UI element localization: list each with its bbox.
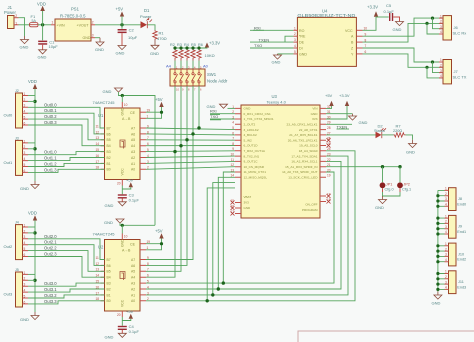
svg-text:Out1.0: Out1.0 bbox=[44, 150, 57, 155]
U4 pin 7 Z bbox=[356, 47, 362, 49]
wire U2 A1 long run to U3 pin23 bbox=[146, 156, 348, 295]
wire D2 to R7 bbox=[382, 134, 394, 136]
svg-text:A3: A3 bbox=[131, 150, 135, 154]
svg-text:A→B: A→B bbox=[122, 249, 131, 253]
junction rail R3 bbox=[179, 46, 182, 49]
svg-text:GND: GND bbox=[120, 107, 124, 115]
J11 pins 1-4 bbox=[445, 274, 449, 290]
svg-text:4_BCLK2: 4_BCLK2 bbox=[244, 133, 258, 137]
junction SW A3 bbox=[179, 144, 182, 147]
wire JP2 drop bbox=[399, 167, 401, 183]
wire net Out3.2 bbox=[28, 295, 105, 298]
wire U3 pin27 to LED D2 bbox=[326, 134, 376, 136]
svg-text:3: 3 bbox=[445, 280, 447, 284]
connector J7 SLC TX bbox=[443, 60, 452, 84]
junction SW A1 bbox=[191, 132, 194, 135]
svg-text:3: 3 bbox=[445, 225, 447, 229]
svg-text:DE: DE bbox=[299, 41, 305, 45]
svg-text:A2: A2 bbox=[131, 287, 135, 291]
U3 pin 17 GND no-connect bbox=[235, 213, 241, 215]
svg-text:9_OUT1C: 9_OUT1C bbox=[244, 160, 259, 164]
wire R7 to ground bbox=[406, 135, 413, 140]
wire U2 A3 long run to U3 pin20 bbox=[146, 172, 334, 283]
wire VDD bus J4 J5 bbox=[34, 221, 36, 313]
J8 pins 1-4 bbox=[445, 190, 449, 206]
wire net TXEN to U4 RE DE bbox=[250, 36, 293, 42]
wire SW1 bit A0 drop bbox=[198, 86, 200, 128]
wire U3 pin21 to jumpers and End bus bbox=[326, 166, 400, 168]
svg-text:PROGRAM: PROGRAM bbox=[302, 208, 318, 212]
wire U1 A1 to U3 pin11 bbox=[146, 161, 235, 163]
wire net TXEN at U3 pin29 bbox=[326, 123, 352, 125]
svg-text:End0: End0 bbox=[457, 202, 466, 206]
U4 pin 1 RO bbox=[293, 29, 297, 31]
svg-text:4: 4 bbox=[24, 110, 26, 114]
svg-text:6_OUT1D: 6_OUT1D bbox=[244, 144, 259, 148]
wire End bus bbox=[437, 190, 439, 291]
U4 pin 6 Y bbox=[356, 53, 362, 55]
J5 pins 1-6 bbox=[23, 274, 29, 304]
svg-text:U2: U2 bbox=[98, 245, 104, 250]
svg-text:A3: A3 bbox=[131, 282, 135, 286]
resistor R7 220 ohm bbox=[394, 133, 406, 137]
ground at C3 bbox=[118, 202, 126, 206]
svg-text:20_A6_TX5_LRCLK1: 20_A6_TX5_LRCLK1 bbox=[288, 138, 318, 142]
wire net Out1.2 bbox=[28, 163, 105, 166]
svg-text:GND: GND bbox=[150, 51, 159, 56]
svg-text:4: 4 bbox=[440, 74, 442, 78]
svg-text:C5: C5 bbox=[386, 3, 392, 8]
wire PS1 GND pin to ground bbox=[95, 37, 100, 39]
svg-text:5_IN2: 5_IN2 bbox=[244, 138, 253, 142]
svg-text:10: 10 bbox=[124, 103, 128, 107]
wire net Out2.2 bbox=[28, 251, 105, 272]
svg-text:2: 2 bbox=[445, 220, 447, 224]
svg-text:C2: C2 bbox=[129, 27, 135, 32]
connector J9 End1 bbox=[449, 215, 457, 238]
svg-text:B5: B5 bbox=[107, 270, 111, 274]
svg-text:17_A3_TX4_SDA1: 17_A3_TX4_SDA1 bbox=[291, 154, 317, 158]
svg-text:SLC Rx: SLC Rx bbox=[453, 31, 467, 36]
U3 pin PROGRAM no-connect bbox=[320, 201, 326, 203]
svg-text:10_CS_MQSR: 10_CS_MQSR bbox=[244, 165, 265, 169]
svg-text:1: 1 bbox=[440, 58, 442, 62]
svg-text:1: 1 bbox=[440, 14, 442, 18]
U3 left pin names bbox=[244, 107, 274, 180]
svg-text:4: 4 bbox=[294, 44, 296, 48]
svg-text:4: 4 bbox=[445, 203, 447, 207]
svg-text:Teensy 4.0: Teensy 4.0 bbox=[267, 100, 287, 105]
ground at C4 bbox=[118, 333, 126, 337]
wire net RXI at U3 pin2 bbox=[210, 113, 235, 115]
wire U4 Z to J7 pin1 bbox=[363, 48, 444, 62]
svg-text:VCC: VCC bbox=[120, 168, 124, 176]
wire U1 A7 to U3 pin5 bbox=[146, 128, 235, 130]
svg-text:3: 3 bbox=[440, 69, 442, 73]
ground at End bus bbox=[434, 292, 442, 300]
svg-text:Out3: Out3 bbox=[4, 292, 13, 297]
svg-text:B3: B3 bbox=[107, 282, 111, 286]
svg-text:GND: GND bbox=[20, 317, 29, 322]
wire U1 A3 to U3 pin9 bbox=[146, 150, 235, 153]
svg-text:2: 2 bbox=[440, 64, 442, 68]
svg-text:VDD: VDD bbox=[37, 2, 46, 7]
junction pin14 drop bbox=[217, 287, 220, 290]
svg-text:J10: J10 bbox=[458, 252, 464, 256]
U3 pin ON_OFF no-connect bbox=[320, 195, 326, 197]
svg-text:TXO: TXO bbox=[254, 43, 262, 48]
wire net Out2.0 bbox=[28, 239, 105, 260]
connector J4 Out2 bbox=[16, 225, 23, 260]
svg-text:D2: D2 bbox=[378, 123, 384, 128]
ground at U3 pin1 bbox=[220, 104, 228, 108]
connector J2 Out0 bbox=[16, 93, 23, 128]
svg-text:SW1: SW1 bbox=[207, 72, 217, 77]
wire net Out0.1 bbox=[28, 113, 105, 134]
wire J5 pin1 to bus bbox=[28, 273, 35, 275]
svg-text:Out0: Out0 bbox=[4, 113, 13, 118]
svg-text:B1: B1 bbox=[107, 293, 111, 297]
wire U4 B to J6 pin2 bbox=[363, 23, 444, 42]
junction J5 pin2 bbox=[33, 279, 36, 282]
U2 pin 10 GND top bbox=[121, 234, 123, 240]
supply +5V at U2 VCC bbox=[129, 314, 133, 319]
svg-text:74AHCT245: 74AHCT245 bbox=[93, 100, 116, 105]
svg-text:A6: A6 bbox=[131, 264, 135, 268]
J2 pins 1-6 bbox=[23, 96, 29, 126]
svg-text:4: 4 bbox=[24, 157, 26, 161]
U2 left pins 11-18 B7-B0 bbox=[101, 260, 105, 301]
U3 pin 15 VBAT no-connect bbox=[235, 202, 241, 204]
junction U1 GND pin bbox=[121, 94, 124, 97]
capacitor C1 10uF bbox=[42, 25, 44, 41]
ground under C2 bbox=[118, 46, 126, 50]
svg-text:14_A0_TX3_SPDIF_OUT: 14_A0_TX3_SPDIF_OUT bbox=[282, 170, 318, 174]
svg-text:220Ω: 220Ω bbox=[393, 129, 402, 133]
svg-text:21_A7_RX5_BCLK1: 21_A7_RX5_BCLK1 bbox=[289, 133, 317, 137]
wire net Out0.2 bbox=[28, 119, 105, 140]
svg-text:6: 6 bbox=[24, 121, 26, 125]
svg-text:B5: B5 bbox=[107, 138, 111, 142]
junctions End bus bbox=[436, 194, 439, 291]
svg-text:3V3: 3V3 bbox=[312, 117, 318, 121]
svg-text:+VOUT: +VOUT bbox=[77, 23, 90, 27]
svg-text:End1: End1 bbox=[457, 230, 466, 234]
svg-text:VIN: VIN bbox=[312, 107, 317, 111]
svg-text:+5V: +5V bbox=[116, 7, 124, 12]
svg-text:B2: B2 bbox=[107, 287, 111, 291]
svg-text:Out0.3: Out0.3 bbox=[44, 120, 57, 125]
junction J2 pin2 bbox=[33, 100, 36, 103]
svg-text:Out2.0: Out2.0 bbox=[44, 234, 57, 239]
svg-text:11: 11 bbox=[96, 256, 100, 260]
wire SW1 bit A4 drop to U2 A4 bbox=[146, 86, 175, 277]
svg-text:JP1: JP1 bbox=[386, 182, 393, 186]
svg-text:A2: A2 bbox=[131, 156, 135, 160]
svg-text:Out0.1: Out0.1 bbox=[44, 108, 57, 113]
ground at U3 pin31 bbox=[349, 114, 357, 120]
svg-text:7_RX2_OUT1A: 7_RX2_OUT1A bbox=[244, 149, 266, 153]
wire J4 pin1 to bus bbox=[28, 226, 35, 228]
U1 left pins 11-18 B7-B0 bbox=[101, 128, 105, 169]
PS1 pin 2 +VOUT bbox=[91, 24, 95, 26]
svg-text:R2: R2 bbox=[170, 43, 175, 47]
wire net Out2.3 bbox=[28, 257, 105, 278]
wire aux drop b bbox=[207, 188, 235, 301]
svg-text:R5: R5 bbox=[191, 43, 196, 47]
svg-text:GND: GND bbox=[375, 205, 384, 210]
supply +3.3V at U4 bbox=[363, 17, 377, 31]
svg-text:A0: A0 bbox=[131, 168, 135, 172]
svg-text:5: 5 bbox=[294, 50, 296, 54]
svg-text:3_LRCLK2: 3_LRCLK2 bbox=[244, 128, 259, 132]
svg-text:3: 3 bbox=[440, 25, 442, 29]
svg-text:End3: End3 bbox=[457, 285, 466, 289]
wire net Out1.3 bbox=[28, 169, 105, 172]
svg-text:RXI: RXI bbox=[210, 109, 217, 114]
supply +5V bbox=[121, 17, 123, 25]
svg-text:Out2.3: Out2.3 bbox=[44, 252, 57, 257]
svg-text:4: 4 bbox=[24, 241, 26, 245]
J7 pins 1-4 bbox=[439, 62, 443, 78]
wire aux drop a bbox=[213, 183, 235, 295]
supply VDD for J2 J3 bbox=[33, 84, 37, 89]
no-connect U3 pin 26 bbox=[327, 138, 331, 142]
U4 pin 4 DI bbox=[293, 47, 297, 49]
junction rail R6 bbox=[197, 46, 200, 49]
LED D2 Status bbox=[376, 132, 382, 139]
wire branch J7 pin4 bbox=[427, 67, 443, 78]
svg-text:Out1: Out1 bbox=[4, 160, 13, 165]
svg-text:3: 3 bbox=[92, 34, 94, 38]
svg-text:RXI: RXI bbox=[254, 26, 261, 31]
svg-text:3: 3 bbox=[24, 151, 26, 155]
wire J5 pin2 to bus bbox=[28, 279, 35, 281]
svg-text:0_RX1_CRX2_CS1: 0_RX1_CRX2_CS1 bbox=[244, 112, 271, 116]
wire U2 VCC to +5V and C4 bbox=[122, 317, 131, 326]
capacitor C4 0.1uF bbox=[118, 326, 127, 327]
svg-text:20: 20 bbox=[117, 313, 121, 317]
supply +3.3V at U3 3V3 bbox=[326, 106, 347, 119]
svg-text:GND: GND bbox=[272, 60, 281, 65]
wire U1 A5 to U3 pin7 bbox=[146, 139, 235, 141]
switch SW1 Node Addr bbox=[170, 69, 205, 86]
svg-text:10KΩ: 10KΩ bbox=[205, 53, 215, 58]
junction node VDD bbox=[41, 23, 44, 26]
svg-text:Out3.0: Out3.0 bbox=[44, 281, 57, 286]
svg-text:A0: A0 bbox=[131, 299, 135, 303]
wire branch J6 pin3 bbox=[433, 18, 444, 29]
svg-text:J11: J11 bbox=[458, 280, 464, 284]
U3 left pin numbers bbox=[230, 105, 234, 178]
svg-text:GND: GND bbox=[244, 107, 252, 111]
svg-text:+5V: +5V bbox=[325, 93, 333, 98]
U2 buffer glyph bbox=[120, 272, 125, 281]
U2 pin 20 VCC bottom bbox=[121, 311, 123, 317]
svg-text:Out2.1: Out2.1 bbox=[44, 240, 57, 245]
svg-text:23_A9_CRX1_MCLK1: 23_A9_CRX1_MCLK1 bbox=[287, 123, 318, 127]
svg-text:GND: GND bbox=[406, 150, 415, 155]
svg-text:3: 3 bbox=[24, 104, 26, 108]
svg-text:*RE: *RE bbox=[299, 35, 306, 39]
wire U2 A0 long run to U3 pin24 bbox=[146, 151, 355, 301]
wire SW1 bit A2 drop to U2 A6 bbox=[146, 86, 187, 265]
junction pin13 drop bbox=[222, 281, 225, 284]
junction U2 CE rail bbox=[160, 242, 163, 245]
svg-text:Cfg.0: Cfg.0 bbox=[385, 188, 394, 192]
junction Y to J7 pin4 bbox=[425, 66, 428, 69]
svg-text:RO: RO bbox=[299, 29, 305, 33]
svg-text:Out0.2: Out0.2 bbox=[44, 114, 57, 119]
svg-text:1: 1 bbox=[445, 214, 447, 218]
supply +5V at U1 VCC bbox=[129, 182, 133, 187]
connector J5 Out3 bbox=[16, 272, 23, 307]
wire jumpers to ground bbox=[383, 192, 401, 196]
junction J3 pin2 bbox=[33, 147, 36, 150]
svg-text:Out0.0: Out0.0 bbox=[44, 102, 57, 107]
wire J4 pin2 to bus bbox=[28, 232, 35, 234]
wire J2 pin2 to bus bbox=[28, 100, 35, 102]
svg-text:Out3.3: Out3.3 bbox=[44, 299, 57, 304]
wire U3 pin13 drop bbox=[223, 172, 235, 283]
svg-text:2: 2 bbox=[445, 247, 447, 251]
svg-text:5: 5 bbox=[24, 247, 26, 251]
svg-text:SLC TX: SLC TX bbox=[453, 75, 467, 80]
svg-text:10µF: 10µF bbox=[128, 35, 138, 40]
wire J1 pin2 to ground bbox=[19, 18, 25, 36]
svg-text:3: 3 bbox=[24, 235, 26, 239]
svg-text:2: 2 bbox=[24, 229, 26, 233]
svg-text:+5V: +5V bbox=[126, 178, 134, 183]
ground under J3 bbox=[31, 181, 39, 189]
no-connect U3 pin 25 bbox=[327, 144, 331, 148]
fuse F1 5A bbox=[30, 23, 39, 27]
svg-text:Out2.2: Out2.2 bbox=[44, 246, 57, 251]
ground under PS1 bbox=[96, 38, 104, 46]
wire net Out0.3 bbox=[28, 125, 105, 146]
svg-text:Out1.3: Out1.3 bbox=[44, 167, 57, 172]
wire U4 GND pin to ground bbox=[278, 53, 294, 55]
svg-text:0.1µF: 0.1µF bbox=[129, 329, 140, 334]
svg-text:GND: GND bbox=[95, 47, 104, 52]
svg-text:1: 1 bbox=[24, 92, 26, 96]
svg-text:1: 1 bbox=[445, 242, 447, 246]
supply VDD bbox=[42, 11, 44, 25]
svg-text:VBAT: VBAT bbox=[244, 195, 252, 199]
svg-text:+5V: +5V bbox=[155, 97, 163, 102]
svg-text:2: 2 bbox=[294, 32, 296, 36]
wire net Out3.1 bbox=[28, 289, 105, 292]
svg-text:A1: A1 bbox=[131, 293, 135, 297]
junction rail R4 bbox=[185, 46, 188, 49]
U4 pin 5 GND bbox=[293, 53, 297, 55]
wire net Out0.0 bbox=[28, 107, 105, 128]
svg-text:1: 1 bbox=[24, 271, 26, 275]
svg-text:GND: GND bbox=[38, 55, 47, 60]
svg-text:B6: B6 bbox=[107, 132, 111, 136]
wire U3 pin1 to ground bbox=[228, 107, 236, 109]
svg-text:J4: J4 bbox=[15, 221, 19, 225]
J1 pin 2 bbox=[14, 17, 19, 19]
svg-text:GND: GND bbox=[105, 203, 114, 208]
svg-text:2: 2 bbox=[440, 20, 442, 24]
wire J3 pin2 to bus bbox=[28, 148, 35, 150]
U4 pin 9 A bbox=[356, 35, 362, 37]
wire pullup rail bbox=[175, 47, 207, 50]
J1 pin 1 bbox=[14, 24, 19, 26]
U4 pin 8 B bbox=[356, 41, 362, 43]
svg-text:28: 28 bbox=[327, 126, 331, 130]
svg-text:GND: GND bbox=[359, 120, 368, 125]
svg-text:13_SCK_CRX1_LED: 13_SCK_CRX1_LED bbox=[288, 176, 318, 180]
junction U2 GND pin bbox=[121, 224, 124, 227]
svg-text:J9: J9 bbox=[458, 225, 462, 229]
svg-text:2: 2 bbox=[15, 14, 17, 18]
svg-text:B1: B1 bbox=[107, 162, 111, 166]
svg-text:Out2: Out2 bbox=[4, 244, 13, 249]
connector J8 End0 bbox=[449, 188, 457, 211]
svg-text:4: 4 bbox=[445, 230, 447, 234]
svg-text:1_TX1_CTX2_MISO1: 1_TX1_CTX2_MISO1 bbox=[244, 117, 274, 121]
svg-text:3: 3 bbox=[294, 38, 296, 42]
wire U3 pin14 drop bbox=[218, 177, 235, 289]
svg-text:GND: GND bbox=[20, 186, 29, 191]
junction rail R2 bbox=[173, 46, 176, 49]
svg-text:10: 10 bbox=[124, 235, 128, 239]
wire U2 CE DIR to +5V bbox=[146, 239, 162, 250]
ground under R1 bbox=[151, 40, 159, 49]
wire JP1 drop bbox=[382, 167, 384, 183]
wire U1 A6 to U3 pin6 bbox=[146, 134, 235, 135]
svg-text:2: 2 bbox=[445, 192, 447, 196]
svg-text:B0: B0 bbox=[107, 299, 111, 303]
svg-text:11_MOSI_CTX1: 11_MOSI_CTX1 bbox=[244, 170, 267, 174]
wire net Out2.1 bbox=[28, 245, 105, 266]
svg-text:74AHCT245: 74AHCT245 bbox=[93, 232, 116, 237]
wire U2 GND net bbox=[120, 223, 155, 225]
junction SW A0 bbox=[197, 126, 200, 129]
svg-text:A5: A5 bbox=[131, 270, 135, 274]
svg-text:6: 6 bbox=[24, 300, 26, 304]
junction JP1 tap bbox=[381, 165, 384, 168]
U1 right pins 9-2 A7-A0 bbox=[140, 128, 146, 169]
svg-text:GND: GND bbox=[432, 301, 441, 306]
svg-text:6: 6 bbox=[24, 169, 26, 173]
svg-text:B0: B0 bbox=[107, 168, 111, 172]
svg-text:20: 20 bbox=[117, 182, 121, 186]
svg-text:GND: GND bbox=[103, 89, 112, 94]
wire U4 Y to J7 pin2 bbox=[363, 54, 444, 67]
wire SW1 bit A3 drop to U2 A5 bbox=[146, 86, 181, 271]
svg-text:11: 11 bbox=[96, 124, 100, 128]
svg-text:B7: B7 bbox=[107, 126, 111, 130]
svg-text:2: 2 bbox=[24, 145, 26, 149]
ground at R7 bbox=[409, 140, 417, 148]
svg-text:B6: B6 bbox=[107, 264, 111, 268]
svg-text:JP2: JP2 bbox=[403, 182, 410, 186]
svg-text:1: 1 bbox=[294, 26, 296, 30]
junction Z to J7 pin3 bbox=[431, 60, 434, 63]
wire net Out1.0 bbox=[28, 152, 105, 155]
junction node +5V bbox=[120, 23, 123, 26]
jumper JP1 Cfg.0 bbox=[380, 182, 386, 188]
svg-text:+3.3V: +3.3V bbox=[367, 5, 378, 10]
transceiver U4 GLB50B3EIUZ-TCT-ND bbox=[297, 17, 356, 66]
svg-text:3V3: 3V3 bbox=[244, 200, 250, 204]
svg-text:GND: GND bbox=[83, 36, 91, 40]
svg-text:GND: GND bbox=[105, 335, 114, 340]
svg-text:A→B: A→B bbox=[122, 117, 131, 121]
